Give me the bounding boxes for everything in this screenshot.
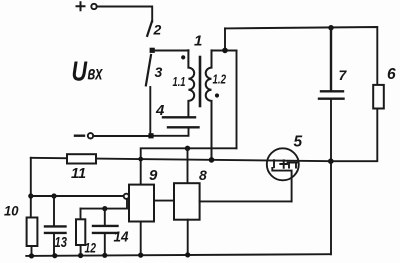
switch 3 blade bbox=[146, 55, 151, 85]
resistor 11 bbox=[67, 154, 96, 163]
wire + to switch bbox=[97, 7, 152, 22]
node top bus / C7 bbox=[328, 25, 333, 30]
wire block 8 bottom bbox=[187, 220, 189, 255]
wire C7 down to bottom bus bbox=[330, 99, 332, 255]
switch 2 blade bbox=[147, 22, 152, 36]
minus terminal bbox=[75, 134, 84, 136]
left vertical from R11 line bbox=[30, 158, 32, 218]
wire transformer right down bbox=[236, 51, 238, 149]
capacitor 13 bbox=[53, 196, 55, 256]
wire minus rail bbox=[93, 135, 148, 137]
node winding 1.2 bottom bbox=[209, 157, 215, 163]
svg-text:11: 11 bbox=[71, 165, 86, 182]
svg-text:1: 1 bbox=[194, 33, 202, 50]
svg-text:1.2: 1.2 bbox=[213, 73, 227, 87]
wire node to winding 1.1 top bbox=[152, 50, 188, 52]
wire block 9 bottom bbox=[140, 222, 142, 256]
capacitor 7 bbox=[319, 28, 344, 99]
svg-text:1.1: 1.1 bbox=[173, 75, 186, 89]
svg-text:U: U bbox=[72, 55, 88, 86]
junction square on minus rail bbox=[148, 133, 153, 138]
wire R6 bottom to source node bbox=[331, 109, 378, 162]
wire minus rail to capacitor 4 bbox=[154, 129, 189, 136]
wire block 9 to block 8 bbox=[154, 200, 174, 202]
svg-text:7: 7 bbox=[339, 67, 348, 83]
core bbox=[199, 57, 202, 106]
capacitor 14 bbox=[104, 209, 106, 256]
polarity dot winding 1.2 bbox=[215, 93, 219, 97]
svg-text:вх: вх bbox=[88, 64, 104, 85]
transistor 5 circle bbox=[267, 148, 299, 180]
wire block 8 top bbox=[187, 148, 189, 183]
svg-text:4: 4 bbox=[155, 102, 165, 119]
capacitor 4 plates bbox=[163, 117, 199, 127]
transistor internal electrodes bbox=[274, 160, 297, 168]
resistor 10 bbox=[27, 218, 38, 247]
bottom bus bbox=[26, 254, 330, 256]
block 9 bbox=[129, 185, 154, 222]
svg-text:2: 2 bbox=[153, 22, 162, 38]
node C14 top bbox=[102, 206, 107, 211]
block 8 bbox=[174, 183, 200, 220]
wire R10 to bottom bus bbox=[31, 246, 33, 256]
element 12 bbox=[80, 209, 82, 256]
svg-text:12: 12 bbox=[85, 240, 97, 256]
wire winding 1.2 top to top bus bbox=[212, 28, 237, 50]
winding 1.2 bbox=[206, 50, 212, 159]
svg-text:6: 6 bbox=[387, 66, 396, 83]
wire block 8 to transistor gate bbox=[200, 200, 292, 202]
plus terminal bbox=[77, 2, 85, 10]
node C7/R6/transistor bbox=[328, 158, 334, 164]
block 9 input circle bbox=[124, 194, 129, 199]
bottom bus junction dots bbox=[29, 253, 34, 258]
node C13 top bbox=[51, 193, 56, 198]
svg-text:5: 5 bbox=[294, 134, 303, 151]
top bus bbox=[225, 27, 377, 85]
resistor 6 bbox=[373, 85, 384, 109]
svg-text:10: 10 bbox=[4, 203, 19, 219]
svg-text:3: 3 bbox=[155, 64, 163, 80]
node block 8 top bbox=[185, 146, 190, 151]
node left vertical / line to block 9 bbox=[28, 193, 33, 198]
winding 1.1 bbox=[188, 50, 194, 117]
svg-text:9: 9 bbox=[149, 167, 158, 184]
svg-text:13: 13 bbox=[55, 235, 68, 251]
wire to block 9 input bbox=[31, 195, 124, 197]
wire block 9 top to feedback line bbox=[141, 148, 237, 184]
main gate-drive line R11 bbox=[31, 158, 331, 161]
transistor gate line bbox=[272, 168, 291, 201]
polarity dot winding 1.1 bbox=[181, 55, 185, 59]
node at 1.2 top bbox=[222, 48, 228, 54]
svg-text:8: 8 bbox=[199, 167, 207, 183]
node junction square top of switch 3 bbox=[150, 48, 155, 53]
line caps 12/14 to block 9 input bbox=[81, 199, 128, 209]
wire switch 3 to minus rail bbox=[149, 87, 151, 133]
svg-text:14: 14 bbox=[114, 230, 129, 246]
node crossing R11 line bbox=[138, 157, 143, 162]
